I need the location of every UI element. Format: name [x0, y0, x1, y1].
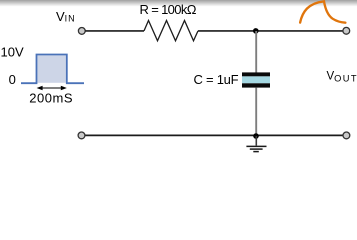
svg-text:10V: 10V	[1, 44, 24, 59]
terminal bottom-left	[78, 132, 85, 139]
node junction top	[253, 28, 259, 34]
pulse width arrow	[37, 86, 67, 91]
wire top-right (resistor to output terminal)	[198, 30, 343, 32]
wire bottom rail	[85, 134, 343, 136]
wire capacitor branch lower (gray)	[255, 88, 257, 135]
input pulse waveform fill	[37, 55, 66, 82]
input pulse waveform outline and baseline	[21, 55, 84, 84]
svg-text:C = 1uF: C = 1uF	[194, 72, 239, 87]
wire ground stub	[255, 136, 257, 146]
ground	[246, 146, 266, 151]
capacitor C1	[242, 72, 270, 87]
resistor R zigzag	[144, 21, 198, 41]
svg-text:R = 100kΩ: R = 100kΩ	[140, 2, 197, 17]
svg-text:0: 0	[9, 72, 16, 87]
terminal bottom-right	[343, 132, 350, 139]
node junction bottom	[253, 133, 259, 139]
wire top-left (terminal to resistor)	[85, 30, 144, 32]
wire capacitor branch upper (gray)	[255, 31, 257, 73]
svg-text:200mS: 200mS	[29, 91, 73, 106]
output waveform curve (orange)	[300, 1, 345, 22]
terminal VOUT top-right	[343, 27, 350, 34]
terminal VIN	[78, 28, 85, 35]
